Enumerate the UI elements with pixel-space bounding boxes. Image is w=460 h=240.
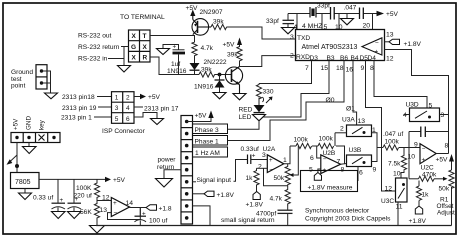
svg-text:Synchronous detector: Synchronous detector — [305, 208, 370, 215]
wire U3D pin4 stub — [404, 114, 410, 116]
wire U3B control to measure box — [357, 167, 360, 181]
svg-text:14: 14 — [126, 200, 134, 207]
svg-text:+: + — [113, 200, 117, 207]
pin 20 stub — [372, 14, 374, 30]
wire pin16 to U3A control — [353, 61, 357, 126]
svg-text:U3B: U3B — [349, 147, 362, 154]
op-amp U2A — [267, 155, 284, 173]
pointer +1.8V pin13 — [389, 39, 400, 44]
regulator 7805 — [11, 173, 40, 189]
svg-text:1k: 1k — [422, 192, 430, 199]
wire pin7 to LED resistor — [259, 61, 312, 84]
svg-text:Phase 1: Phase 1 — [195, 138, 220, 145]
svg-text:50k: 50k — [439, 186, 450, 193]
diode D2 1N916 to ground — [219, 75, 221, 81]
resistor 470k — [409, 178, 419, 180]
box +1.8V measure — [301, 171, 358, 192]
svg-text:B3: B3 — [327, 55, 335, 62]
svg-text:−: − — [375, 40, 379, 47]
wire 7.5k to U3C pin 10 — [401, 171, 404, 179]
svg-text:9: 9 — [361, 65, 365, 72]
svg-text:+5V: +5V — [436, 157, 449, 164]
wire divider junction to op-amp — [97, 200, 111, 202]
ground at 1uf — [157, 49, 170, 55]
resistor 100k third — [383, 145, 399, 150]
svg-text:TO TERMINAL: TO TERMINAL — [120, 14, 165, 21]
svg-text:4700pf: 4700pf — [256, 211, 276, 218]
diode D1 1N916 — [190, 63, 200, 70]
wire comparator plus input to detector output — [385, 50, 449, 154]
svg-text:D4: D4 — [368, 55, 377, 62]
svg-text:U2C: U2C — [421, 165, 434, 172]
svg-text:12: 12 — [386, 56, 394, 63]
IC U1 Atmel AT90S2313 — [296, 30, 385, 61]
svg-text:Signal input: Signal input — [197, 177, 232, 184]
ground test point connector — [36, 65, 47, 89]
comparator inside U1 — [362, 38, 382, 55]
capacitor 4700pf — [278, 205, 293, 226]
svg-text:100K: 100K — [76, 185, 92, 192]
ground below 2N2222 emitter — [233, 94, 246, 100]
svg-text:2: 2 — [290, 53, 294, 60]
pin 4 stub — [296, 14, 298, 30]
svg-text:13: 13 — [100, 207, 108, 214]
ground below ISP pin6 — [151, 119, 164, 125]
labels pins 7 15 18 16 9 8 below U1 — [305, 65, 374, 74]
pointer +1.8V U2B — [314, 173, 321, 181]
svg-text:2N2907: 2N2907 — [200, 9, 223, 16]
svg-text:−: − — [323, 156, 327, 163]
svg-text:7.5k: 7.5k — [388, 161, 401, 168]
wire 100k network — [290, 133, 345, 164]
svg-text:1N916: 1N916 — [167, 68, 187, 75]
svg-text:+5V: +5V — [186, 5, 199, 12]
wire header pin8 down to return rail — [193, 206, 211, 226]
svg-text:8: 8 — [445, 143, 449, 150]
wire U2B out to U3B — [341, 163, 347, 166]
svg-text:2313 pin18: 2313 pin18 — [62, 94, 95, 101]
wire pin1 to ISP — [94, 116, 112, 118]
wire cap to U2A plus — [251, 159, 267, 161]
svg-text:3: 3 — [441, 112, 445, 119]
svg-text:Adjust: Adjust — [437, 210, 455, 217]
svg-text:6: 6 — [359, 170, 363, 177]
svg-text:RS-232 return: RS-232 return — [78, 44, 120, 51]
svg-text:Ø0: Ø0 — [326, 97, 335, 104]
svg-text:RXD: RXD — [296, 54, 310, 61]
svg-text:Ø1: Ø1 — [346, 106, 355, 113]
svg-text:20: 20 — [363, 23, 371, 30]
power connector 4 pins with +5V GND key labels — [11, 133, 60, 143]
capacitor C2 220uf electrolytic — [68, 179, 82, 211]
svg-text:+: + — [142, 211, 146, 218]
svg-text:4: 4 — [403, 112, 407, 119]
svg-text:−: − — [114, 210, 118, 217]
svg-text:−: − — [269, 167, 273, 174]
svg-text:12: 12 — [102, 195, 110, 202]
pin 5 stub — [321, 14, 323, 30]
svg-text:56K: 56K — [80, 209, 92, 216]
wire pin8 to U3D control — [374, 61, 427, 109]
svg-text:10: 10 — [408, 154, 416, 161]
wire pin15 phase staircase — [263, 61, 330, 118]
op-amp U2C — [420, 144, 436, 164]
svg-text:4: 4 — [126, 105, 130, 112]
svg-text:+: + — [173, 44, 177, 51]
switch U3C vertical — [396, 178, 408, 202]
svg-text:2313 pin 19: 2313 pin 19 — [62, 105, 97, 112]
wire 39k to TXD pin 3 — [227, 27, 296, 39]
svg-text:+: + — [269, 157, 273, 164]
svg-text:+1.8V: +1.8V — [246, 202, 264, 209]
svg-text:+1.8V: +1.8V — [217, 192, 235, 199]
junction dot diode D2 — [218, 73, 222, 77]
transistor Q2 2N2222 — [225, 67, 242, 94]
svg-text:16: 16 — [346, 67, 354, 74]
svg-text:1: 1 — [115, 95, 119, 102]
svg-text:9: 9 — [414, 142, 418, 149]
potentiometer 50k R1 — [449, 170, 454, 188]
svg-text:12: 12 — [385, 186, 393, 193]
pointer +1.8V below 1k — [253, 192, 260, 200]
ground below 33pf left — [282, 28, 295, 34]
box label Phase 3 — [193, 124, 228, 134]
svg-text:0.33uf: 0.33uf — [241, 146, 260, 153]
wire GND pin to ground — [28, 143, 30, 147]
ground below C2 — [68, 212, 82, 219]
wire 39k to base with junction — [215, 74, 232, 76]
op-amp U2B — [321, 155, 341, 174]
potentiometer 50k — [285, 166, 290, 186]
port labels D3 B3 B6 B4 D5 D4 — [310, 55, 377, 62]
capacitor 33pf series — [331, 7, 335, 20]
svg-text:point: point — [11, 83, 25, 90]
svg-text:18: 18 — [336, 65, 344, 72]
svg-text:7: 7 — [337, 159, 341, 166]
wire header pin1 to +5V arrow — [187, 118, 211, 122]
wire header pin7 to +1.8V pointer — [193, 193, 205, 195]
svg-text:−: − — [422, 146, 426, 153]
svg-text:.047 uf: .047 uf — [383, 131, 403, 138]
wire U2A output node — [284, 146, 290, 164]
svg-text:G: G — [131, 44, 136, 51]
svg-text:5: 5 — [115, 116, 119, 123]
ground below D2 — [213, 93, 226, 99]
capacitor 0.33uf coupling — [248, 155, 251, 165]
svg-text:100k: 100k — [319, 136, 334, 143]
svg-text:3: 3 — [290, 34, 294, 41]
capacitor .047 uf feedback — [409, 131, 421, 133]
resistor 7.5k — [403, 148, 405, 156]
wire pin9 to U3C control — [366, 61, 396, 192]
wire 100k to U2C minus — [399, 147, 420, 149]
wire R cell to 39k base wire — [150, 57, 199, 75]
op-amp U2D — [111, 198, 129, 217]
ground below test point — [45, 93, 58, 99]
resistor 1k offset — [418, 181, 420, 187]
svg-text:6: 6 — [126, 116, 130, 123]
svg-text:+5V: +5V — [223, 42, 236, 49]
capacitor 1uf electrolytic with ground — [163, 45, 185, 75]
capacitor 33pf left to ground — [283, 14, 295, 28]
wire U3D pin3 to node — [440, 114, 449, 116]
wire U2B plus to +1.8V pointer — [318, 169, 321, 173]
wire U2D output — [130, 207, 147, 209]
box label 1 Hz AM — [193, 147, 228, 157]
junction dot 7805 input — [15, 164, 19, 168]
svg-text:+: + — [60, 197, 64, 204]
wire U2A inverting input and 1k — [257, 167, 268, 169]
ground on return rail below 56K — [90, 226, 105, 234]
LED diode — [258, 98, 260, 106]
wire pin18 to ISP — [97, 96, 112, 98]
wire pin19 to ISP — [98, 106, 112, 108]
svg-text:+5V: +5V — [195, 113, 208, 120]
svg-text:33pf: 33pf — [317, 3, 330, 10]
LED lower triangle — [253, 115, 266, 121]
svg-text:3: 3 — [115, 105, 119, 112]
wire RS-232 return to G cell — [121, 46, 129, 48]
svg-text:8: 8 — [370, 65, 374, 72]
wire collector node to RXD pin 2 — [240, 56, 296, 67]
svg-text:+1.8V: +1.8V — [409, 218, 427, 225]
svg-text:50k: 50k — [274, 175, 285, 182]
svg-text:X: X — [132, 55, 137, 62]
wire collector to 4.7k — [193, 36, 195, 42]
wire 50k wiper — [294, 146, 299, 175]
svg-text:1N916: 1N916 — [194, 84, 214, 91]
svg-text:X: X — [132, 33, 137, 40]
svg-text:key: key — [39, 119, 46, 130]
wire U3C pin 11 to rail — [397, 202, 399, 226]
ground below RS-232 in — [118, 66, 131, 73]
svg-text:+5V: +5V — [386, 11, 399, 18]
resistor 100k second — [318, 143, 334, 148]
svg-text:R: R — [143, 55, 148, 62]
svg-text:3: 3 — [262, 152, 266, 159]
svg-text:2: 2 — [126, 95, 130, 102]
wire signal input to coupling cap — [193, 181, 197, 183]
svg-text:6: 6 — [310, 155, 314, 162]
svg-text:+1.8V measure: +1.8V measure — [308, 185, 353, 192]
svg-text:7805: 7805 — [15, 179, 31, 186]
pointer +1.8V header — [204, 191, 214, 196]
ground return rail along bottom — [96, 225, 452, 227]
svg-text:GND: GND — [26, 116, 33, 130]
svg-text:33pf: 33pf — [266, 18, 279, 25]
svg-text:U3C: U3C — [381, 198, 394, 205]
svg-text:Phase 3: Phase 3 — [195, 127, 220, 134]
wire +5V to pot — [451, 162, 453, 171]
capacitor .047 series — [360, 8, 364, 20]
wiper arrow to 50k pot — [434, 178, 443, 180]
svg-text:LED: LED — [239, 114, 252, 121]
resistor 39k base 2N2907 — [211, 24, 227, 29]
svg-text:2: 2 — [258, 164, 262, 171]
svg-text:4.7k: 4.7k — [270, 196, 283, 203]
capacitor 100 uf — [135, 216, 147, 222]
wire 4.7k to diode D1 — [194, 57, 196, 64]
wire test point pins to ground — [42, 71, 51, 93]
svg-text:15: 15 — [321, 65, 329, 72]
svg-text:100k: 100k — [294, 137, 309, 144]
svg-text:39k: 39k — [213, 19, 224, 26]
svg-text:220 uf: 220 uf — [74, 192, 93, 199]
resistor 56K vertical — [94, 201, 99, 226]
svg-text:T: T — [143, 33, 147, 40]
svg-text:X: X — [143, 44, 148, 51]
svg-text:RS-232 out: RS-232 out — [78, 33, 112, 40]
svg-text:.047: .047 — [344, 5, 357, 12]
svg-text:+1.8V: +1.8V — [404, 41, 422, 48]
wire U2C output — [436, 153, 448, 155]
svg-text:small signal return: small signal return — [221, 217, 275, 224]
svg-text:2313 pin 17: 2313 pin 17 — [144, 106, 179, 113]
oscillator rail wire — [288, 14, 377, 30]
svg-text:B4: B4 — [351, 55, 359, 62]
wire feedback node vertical — [408, 132, 410, 179]
svg-text:D3: D3 — [310, 55, 319, 62]
svg-text:9: 9 — [373, 167, 377, 174]
ISP connector 2x3 table — [112, 92, 135, 124]
wire U3A pin1 down to 100k — [372, 133, 378, 148]
svg-text:U2B: U2B — [323, 150, 336, 157]
ground stub mid rail — [346, 14, 348, 19]
svg-text:39k: 39k — [227, 52, 238, 59]
svg-text:TXD: TXD — [297, 35, 310, 42]
svg-text:470k: 470k — [422, 172, 437, 179]
pointer +1.8 at U2D output — [146, 205, 157, 211]
svg-text:10: 10 — [393, 171, 401, 178]
wire LED to Phase 3 — [228, 121, 260, 130]
wire U2D feedback loop — [108, 208, 141, 220]
svg-text:+: + — [252, 153, 256, 160]
svg-text:100 uf: 100 uf — [149, 217, 168, 224]
wire RS-232 in down to ground — [108, 58, 124, 60]
crystal 4MHZ — [310, 7, 316, 18]
wire T cell to 2N2907 collector — [150, 35, 193, 37]
ground below GND pin — [23, 147, 37, 154]
pointer +1.8V offset — [415, 206, 422, 214]
svg-text:330: 330 — [263, 89, 274, 96]
connector J1 terminal 2x3 table — [129, 30, 151, 62]
svg-text:13: 13 — [386, 32, 394, 39]
arrow +5V right of .047 — [377, 11, 385, 16]
resistor 1k — [254, 170, 259, 186]
ground mid rail — [341, 19, 354, 25]
transistor Q1 2N2907 — [192, 16, 211, 35]
ground below 7805 — [19, 193, 32, 200]
svg-text:ISP Connector: ISP Connector — [102, 128, 146, 135]
arrow +5V from ISP pin2 — [134, 96, 140, 98]
resistor 100k first — [296, 143, 312, 148]
svg-text:+: + — [375, 49, 379, 56]
svg-text:+1.8: +1.8 — [159, 206, 172, 213]
svg-text:+: + — [422, 157, 426, 164]
wire U3B pin9 up to 100k — [372, 148, 384, 162]
svg-text:13: 13 — [358, 118, 366, 125]
wire ISP pin4 to 2313 pin 17 — [134, 106, 143, 108]
svg-text:1 Hz AM: 1 Hz AM — [195, 150, 220, 157]
svg-text:4.7k: 4.7k — [201, 45, 214, 52]
resistor 4.7k detector — [285, 186, 290, 205]
svg-text:1: 1 — [283, 157, 287, 164]
svg-text:U3A: U3A — [342, 117, 355, 124]
wire U3A pin2 left — [335, 132, 347, 134]
resistor 100K vertical — [94, 179, 99, 200]
resistor 39k horizontal base 2N2222 — [199, 72, 215, 77]
ground below C1 — [52, 212, 66, 219]
svg-text:2: 2 — [340, 126, 344, 133]
svg-text:RED: RED — [239, 107, 253, 114]
ground power return open triangle — [156, 179, 173, 188]
wire 7805 output +5V rail — [39, 178, 105, 180]
wire +5V pin down to 7805 input with probe arrow — [9, 143, 17, 173]
resistor 39k vertical collector 2N2222 — [237, 45, 242, 62]
svg-text:Copyright 2003 Dick Cappels: Copyright 2003 Dick Cappels — [305, 216, 391, 223]
svg-text:11: 11 — [396, 204, 403, 211]
capacitor C1 0.33uf electrolytic — [52, 179, 66, 211]
svg-text:RS-232 in: RS-232 in — [78, 56, 108, 63]
svg-text:+5V: +5V — [13, 118, 20, 130]
svg-text:7: 7 — [305, 65, 309, 72]
wire ISP pin6 to ground — [134, 113, 157, 119]
svg-text:Atmel AT90S2313: Atmel AT90S2313 — [302, 44, 358, 51]
wire 100uf cap stem — [139, 208, 141, 217]
svg-text:0.33 uf: 0.33 uf — [33, 195, 53, 202]
svg-text:+5V: +5V — [148, 94, 161, 101]
svg-text:100k: 100k — [385, 139, 400, 146]
box label Phase 1 — [193, 136, 228, 146]
svg-text:39k: 39k — [201, 67, 212, 74]
resistor 4.7k — [192, 42, 197, 57]
resistor 330 — [256, 84, 261, 100]
input header 9 pin connector — [181, 116, 193, 225]
wire 7805 ground — [24, 189, 26, 194]
svg-text:+5V: +5V — [113, 177, 126, 184]
svg-text:2N2222: 2N2222 — [204, 59, 227, 66]
wire pin 13 to pointer — [385, 41, 390, 43]
wire power return pin to signal ground — [164, 170, 181, 179]
svg-text:power: power — [158, 157, 177, 164]
LED arrows — [263, 97, 272, 103]
pin 10 stub — [338, 14, 340, 30]
svg-text:1k: 1k — [246, 175, 254, 182]
wire pin18 to Phase 1 — [228, 61, 345, 141]
svg-text:2313 pin 1: 2313 pin 1 — [61, 115, 92, 122]
